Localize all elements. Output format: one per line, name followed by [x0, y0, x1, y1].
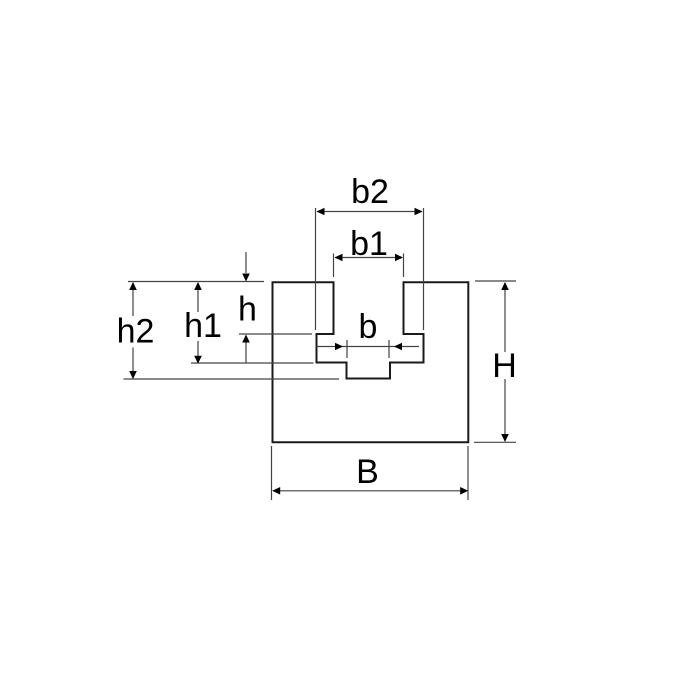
extension line h1 (second step)	[191, 362, 314, 364]
svg-text:H: H	[492, 347, 517, 385]
extension line b2 right	[423, 208, 425, 330]
dimension line b2	[317, 208, 423, 216]
svg-text:h1: h1	[184, 307, 222, 345]
extension line H top	[475, 280, 516, 282]
extension line top-left (top surface reference)	[128, 281, 264, 283]
dimension h upper arrow (outside, pointing down)	[242, 252, 250, 282]
extension line b2 left	[315, 208, 317, 330]
extension line b1 right	[403, 254, 405, 278]
extension line h2 (slot bottom)	[124, 378, 340, 380]
svg-text:b1: b1	[350, 225, 388, 263]
extension line B left	[271, 446, 273, 500]
extension line H bottom	[474, 441, 516, 443]
dimension line H	[501, 282, 509, 442]
dimension line h1	[194, 282, 202, 364]
extension line b left	[346, 340, 348, 358]
svg-text:h2: h2	[117, 313, 155, 351]
svg-text:B: B	[356, 453, 379, 491]
extension line h (first step)	[239, 333, 312, 335]
extension line b right	[388, 340, 390, 358]
svg-text:h: h	[238, 291, 257, 329]
svg-text:b2: b2	[351, 173, 389, 211]
dimension line B	[272, 487, 468, 495]
extension line b1 left	[333, 254, 335, 278]
svg-text:b: b	[359, 308, 378, 346]
profile outline: block with T-slot	[273, 282, 469, 442]
dimension line b1	[335, 254, 404, 262]
dimension line b (outside arrows)	[317, 343, 420, 351]
extension line B right	[467, 446, 469, 500]
dimension line h2	[129, 282, 137, 379]
dimension h lower arrow (outside, pointing up)	[242, 335, 250, 363]
